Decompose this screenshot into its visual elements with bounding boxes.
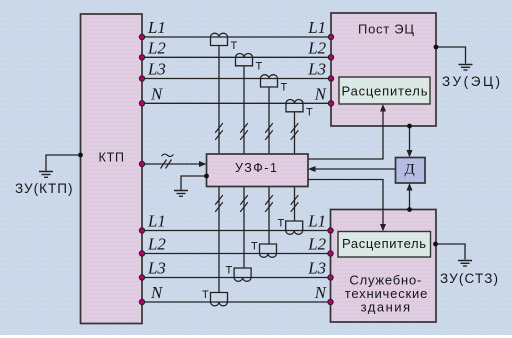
- svg-text:КТП: КТП: [99, 151, 125, 165]
- svg-text:Д: Д: [405, 162, 415, 178]
- svg-text:УЗФ-1: УЗФ-1: [235, 161, 277, 175]
- svg-text:L3: L3: [307, 60, 326, 79]
- arrow into lower trip unit: [380, 224, 386, 232]
- svg-text:Т: Т: [256, 60, 263, 72]
- cable break marks on feed wire: [161, 160, 172, 169]
- node dots L3 top: [139, 76, 333, 81]
- ground ZU(STZ): [431, 244, 473, 266]
- junction dot EC bottom edge: [407, 124, 412, 129]
- wire L3 top: [142, 78, 331, 80]
- arrow into D top: [407, 150, 413, 158]
- junction dot STZ ground: [433, 242, 438, 247]
- wire UZF-1 to lower trip unit: [308, 180, 383, 228]
- transformer T5 on L1 bottom: [286, 221, 303, 234]
- wire L3 bottom: [142, 277, 331, 279]
- wire vertical phase C (x=269): [268, 87, 270, 244]
- wire vertical phase N (x=294.5): [294, 112, 296, 221]
- wire KTP feed to UZF-1: [142, 163, 200, 165]
- wire L1 top: [142, 36, 331, 38]
- svg-text:ЗУ(СТЗ): ЗУ(СТЗ): [440, 271, 498, 286]
- svg-text:Т: Т: [226, 265, 233, 277]
- cable break marks on vertical wires (bottom): [215, 195, 298, 212]
- svg-text:L3: L3: [147, 60, 166, 79]
- svg-text:L2: L2: [147, 235, 166, 254]
- junction dot STZ top edge: [407, 207, 412, 212]
- svg-text:Расцепитель: Расцепитель: [342, 236, 426, 251]
- block Post EC: [331, 13, 436, 126]
- node dot feed wire: [139, 161, 144, 166]
- cable break marks on vertical wires (top): [215, 123, 298, 140]
- arrow into upper trip unit: [380, 104, 386, 112]
- transformer T8 on N bottom: [211, 293, 228, 306]
- transformer T6 on L2 bottom: [260, 244, 277, 257]
- arrow into UZF-1 left: [199, 161, 207, 167]
- svg-text:Расцепитель: Расцепитель: [342, 84, 428, 99]
- transformer T1 on L1 top: [211, 33, 228, 45]
- junction dot EC ground: [434, 45, 439, 50]
- wire vertical phase A (x=219): [218, 46, 220, 293]
- svg-text:Пост ЭЦ: Пост ЭЦ: [358, 22, 414, 37]
- svg-text:здания: здания: [361, 300, 411, 315]
- svg-text:Т: Т: [278, 218, 285, 230]
- wire N top: [142, 102, 331, 104]
- svg-text:Т: Т: [306, 106, 313, 118]
- arrow into D bottom: [407, 183, 413, 191]
- svg-text:L2: L2: [307, 235, 326, 254]
- arrow into UZF-1 right: [308, 166, 316, 172]
- svg-text:N: N: [150, 283, 163, 302]
- node dots N bottom: [139, 299, 333, 304]
- transformer T2 on L2 top: [236, 54, 253, 66]
- svg-text:Т: Т: [281, 82, 288, 94]
- svg-text:Т: Т: [202, 289, 209, 301]
- wire L1 bottom: [142, 230, 331, 232]
- block D (detector): [396, 158, 426, 184]
- trip unit lower (Rastsepitel): [338, 232, 431, 258]
- svg-text:L1: L1: [307, 212, 326, 231]
- junction dot UZF-1 ground: [204, 174, 209, 179]
- junction dot KTP ground: [78, 153, 83, 158]
- transformer T7 on L3 bottom: [234, 268, 251, 281]
- AC tilde symbol: [162, 154, 174, 156]
- node dots N top: [139, 101, 333, 106]
- svg-text:L3: L3: [147, 259, 166, 278]
- svg-text:N: N: [150, 84, 163, 103]
- node dots L1 bottom: [139, 228, 333, 233]
- svg-text:N: N: [314, 84, 327, 103]
- svg-text:Т: Т: [231, 40, 238, 52]
- wire STZ to D: [409, 187, 411, 210]
- wire L2 bottom: [142, 253, 331, 255]
- wire vertical phase B (x=244): [243, 66, 245, 268]
- svg-text:L2: L2: [147, 38, 166, 57]
- transformer T4 on N top: [286, 100, 303, 112]
- ground ZU(EC): [436, 47, 473, 70]
- wire D to UZF-1: [312, 168, 396, 170]
- wire N bottom: [142, 301, 331, 303]
- block KTP: [81, 14, 143, 324]
- svg-text:ЗУ(КТП): ЗУ(КТП): [15, 181, 73, 196]
- wire EC post to D: [409, 126, 411, 154]
- svg-text:L1: L1: [147, 212, 166, 231]
- svg-text:Т: Т: [251, 241, 258, 253]
- block STZ (service buildings): [331, 210, 437, 323]
- node dots L2 top: [139, 55, 333, 60]
- svg-text:L2: L2: [307, 38, 326, 57]
- svg-text:N: N: [314, 283, 327, 302]
- node dots L3 bottom: [139, 275, 333, 280]
- svg-text:L1: L1: [147, 18, 166, 37]
- node dots L1 top: [139, 34, 333, 39]
- block UZF-1 filter: [207, 154, 309, 187]
- trip unit upper (Rastsepitel): [339, 77, 430, 104]
- ground ZU(KTP): [39, 155, 81, 177]
- ground UZF-1: [174, 176, 207, 196]
- wire UZF-1 to upper trip unit: [308, 108, 383, 159]
- svg-text:L1: L1: [307, 18, 326, 37]
- svg-text:L3: L3: [307, 259, 326, 278]
- wire L2 top: [142, 56, 331, 58]
- node dots L2 bottom: [139, 251, 333, 256]
- transformer T3 on L3 top: [261, 75, 278, 87]
